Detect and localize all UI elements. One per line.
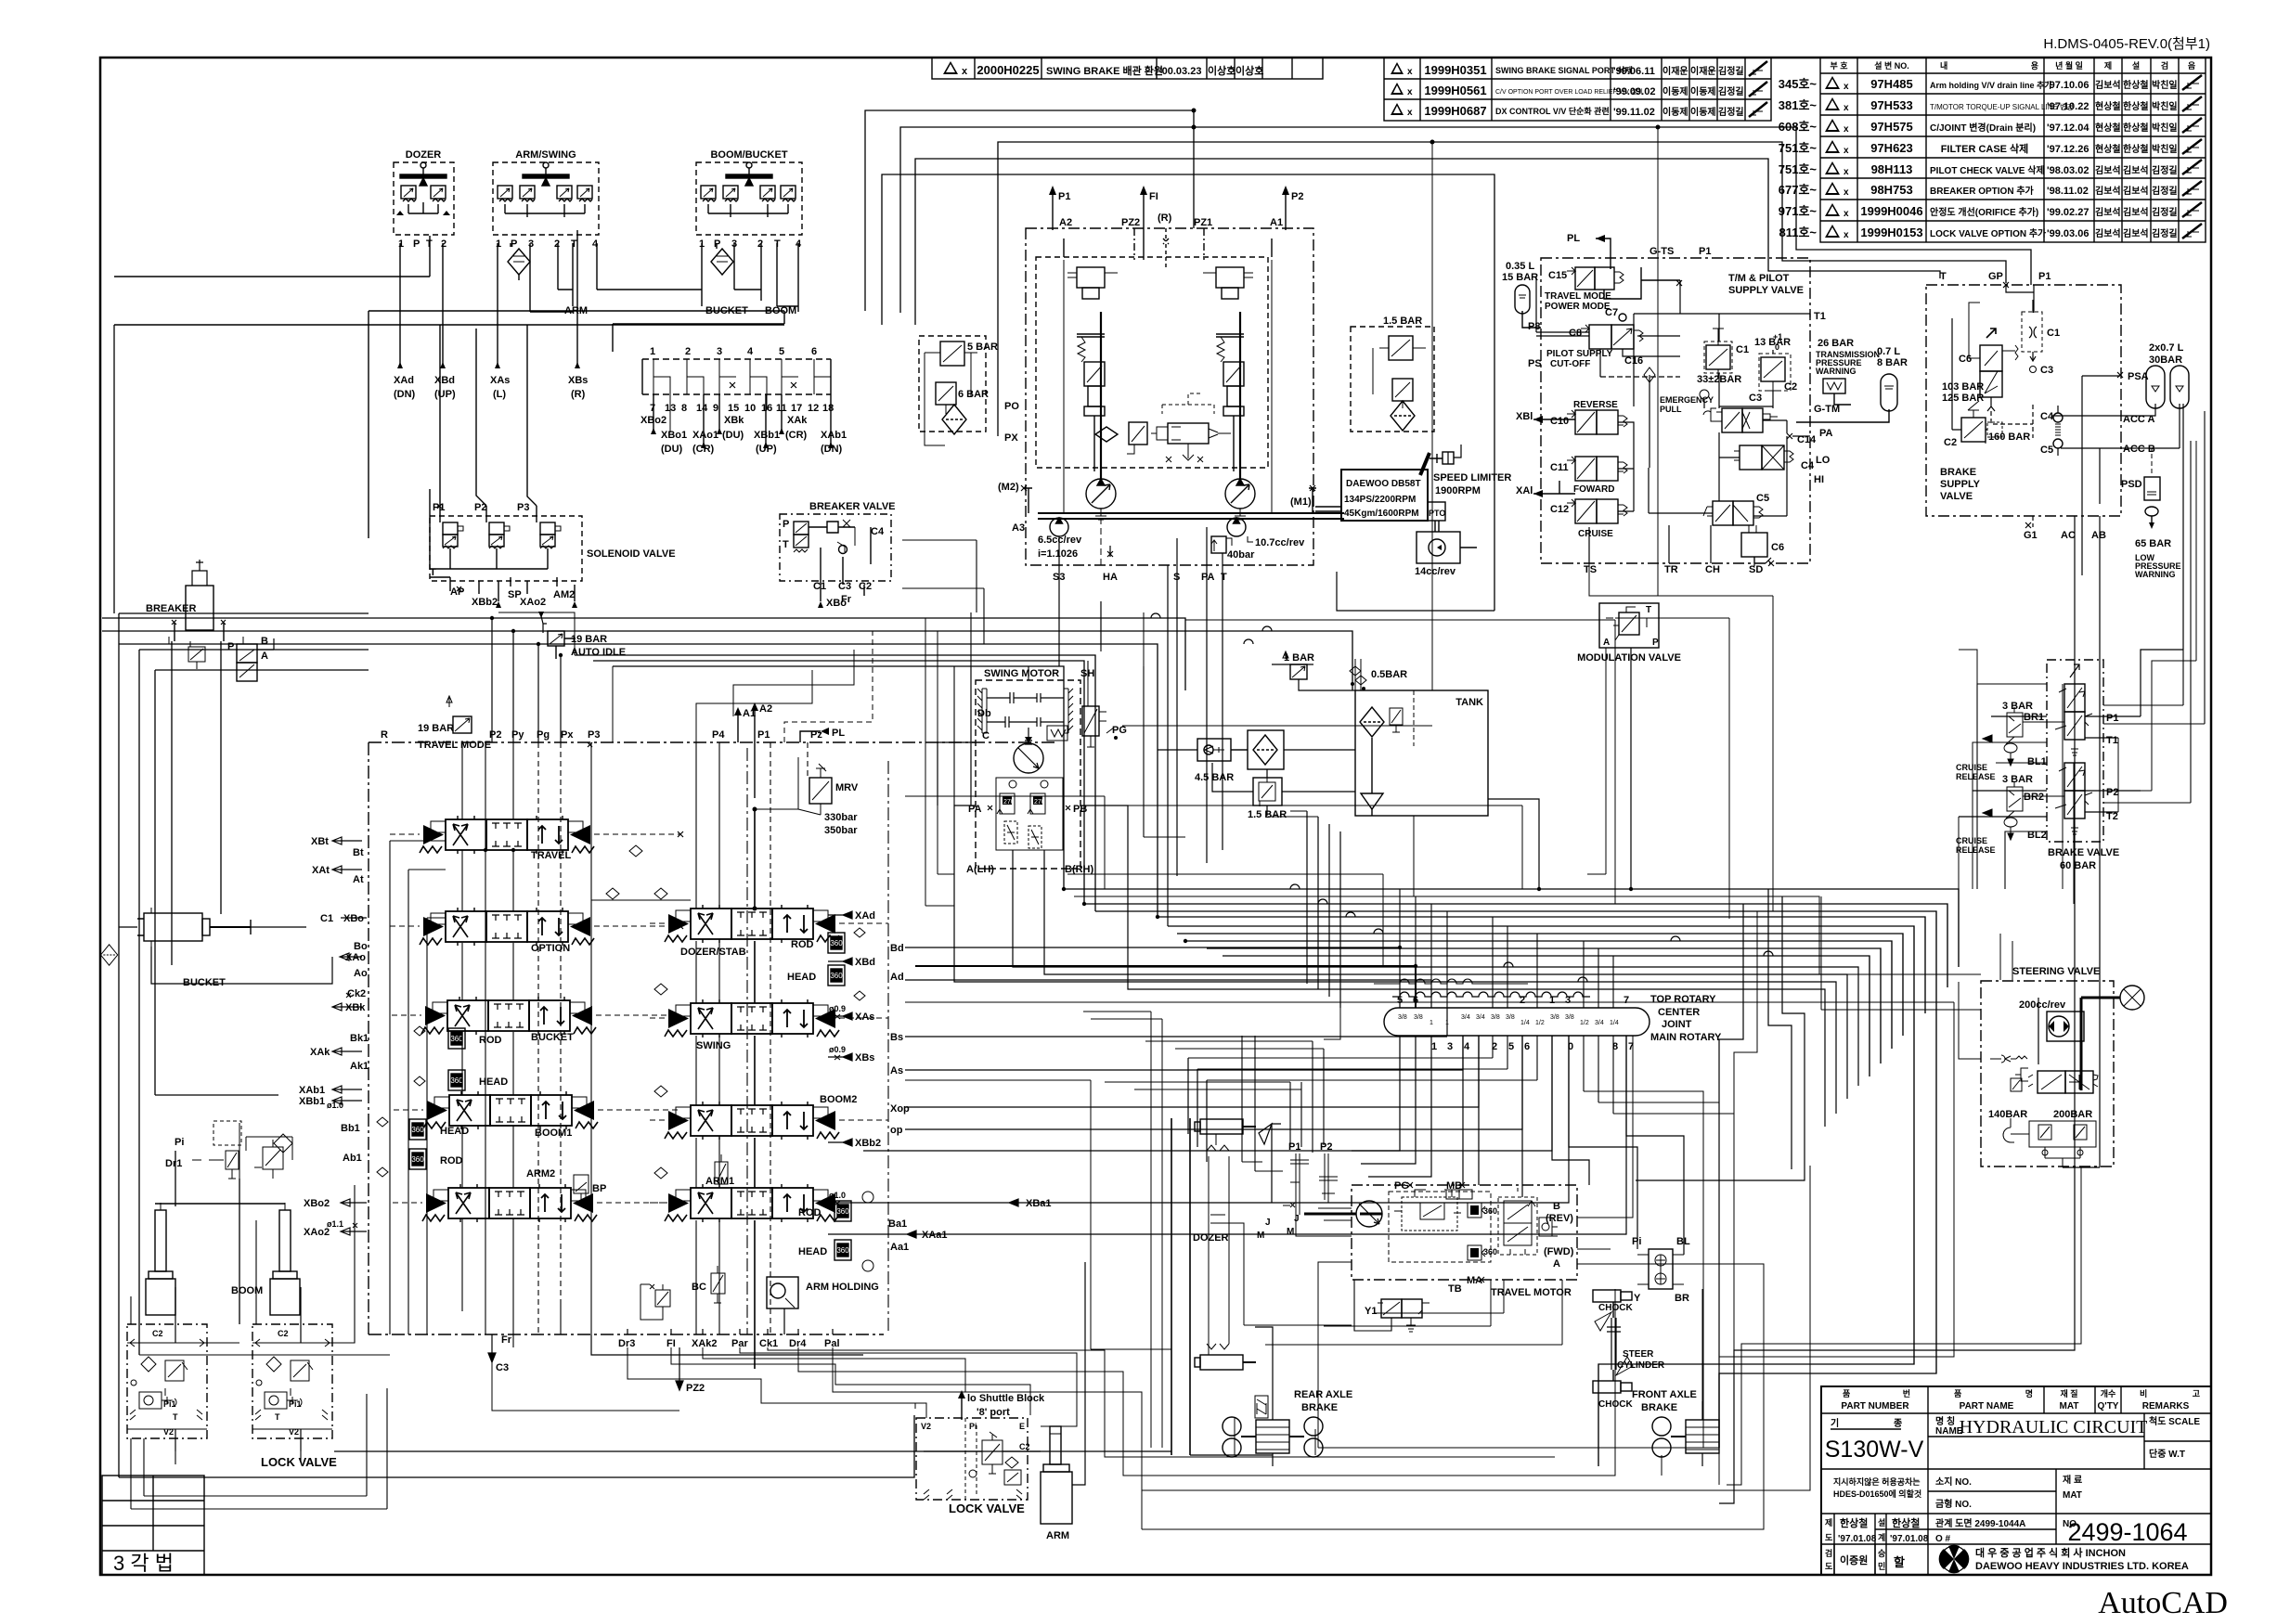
- spool: [2038, 1071, 2065, 1093]
- svg-text:140BAR: 140BAR: [1988, 1109, 2027, 1120]
- svg-text:김정길: 김정길: [2152, 206, 2178, 218]
- svg-text:17: 17: [791, 403, 802, 414]
- svg-text:C2: C2: [152, 1329, 163, 1338]
- left port labels: [299, 836, 369, 1238]
- svg-text:AM2: AM2: [553, 589, 575, 600]
- svg-text:P: P: [227, 641, 234, 652]
- inlet check: [1990, 1055, 2027, 1063]
- svg-text:XAo2: XAo2: [520, 597, 546, 608]
- 4.5 BAR check: [1190, 739, 1248, 783]
- svg-text:B: B: [261, 636, 268, 647]
- svg-text:18: 18: [822, 403, 834, 414]
- accumulator 0.7L 8BAR: [1796, 346, 1908, 422]
- svg-text:HDES-D01650에 의할것: HDES-D01650에 의할것: [1833, 1489, 1921, 1499]
- svg-text:P2: P2: [2106, 787, 2118, 798]
- svg-text:6: 6: [811, 346, 817, 357]
- svg-text:김정길: 김정길: [2152, 227, 2178, 239]
- svg-text:Bk1: Bk1: [350, 1033, 369, 1044]
- svg-text:At: At: [353, 874, 364, 885]
- svg-text:3/8: 3/8: [1565, 1014, 1574, 1021]
- svg-text:0.35 L: 0.35 L: [1506, 261, 1534, 272]
- svg-text:FILTER CASE 삭제: FILTER CASE 삭제: [1941, 142, 2029, 155]
- svg-text:3/4: 3/4: [1476, 1014, 1485, 1021]
- svg-text:PL: PL: [1567, 233, 1580, 244]
- TRAVEL spool: [420, 816, 594, 861]
- svg-text:OPTION: OPTION: [531, 943, 570, 954]
- 360 orifices: [1468, 1203, 1481, 1218]
- svg-text:재 료: 재 료: [2063, 1474, 2082, 1486]
- svg-text:6 BAR: 6 BAR: [958, 389, 989, 400]
- svg-text:이증원: 이증원: [1840, 1553, 1868, 1566]
- svg-text:P1: P1: [1699, 246, 1711, 257]
- approval rows: [1821, 1543, 2211, 1545]
- svg-text:CRUISE: CRUISE: [1578, 529, 1613, 539]
- svg-text:XAb1: XAb1: [821, 430, 847, 441]
- svg-text:P: P: [1652, 638, 1659, 648]
- svg-text:SUPPLY VALVE: SUPPLY VALVE: [1728, 285, 1804, 296]
- svg-text:3/8: 3/8: [1414, 1014, 1423, 1021]
- svg-text:명: 명: [2025, 1388, 2033, 1398]
- valve C5: [1703, 493, 1769, 525]
- svg-text:TR: TR: [1664, 564, 1678, 575]
- svg-text:척도 SCALE: 척도 SCALE: [2149, 1415, 2200, 1427]
- tank right connection: [1414, 799, 1539, 896]
- svg-text:LOCK VALVE: LOCK VALVE: [949, 1502, 1025, 1515]
- svg-text:XAk: XAk: [787, 415, 808, 426]
- middle rows: [1821, 1513, 2211, 1514]
- svg-text:TRAVEL: TRAVEL: [531, 850, 571, 861]
- svg-text:박친일: 박친일: [2152, 79, 2178, 91]
- svg-text:PS: PS: [1528, 358, 1542, 369]
- svg-text:O #: O #: [1935, 1534, 1951, 1544]
- breaker valve block: [780, 501, 896, 609]
- svg-text:PSA: PSA: [2128, 371, 2149, 382]
- svg-text:안정도 개선(ORIFICE 추가): 안정도 개선(ORIFICE 추가): [1930, 206, 2038, 218]
- check diamonds column: [606, 845, 667, 1179]
- svg-text:x: x: [1844, 146, 1849, 156]
- svg-text:XBo: XBo: [343, 913, 364, 924]
- box C6: [1741, 525, 1784, 566]
- pilot label XBs: [568, 375, 588, 400]
- svg-text:ROD: ROD: [798, 1207, 822, 1218]
- svg-text:SWING BRAKE SIGNAL PORT 삭제: SWING BRAKE SIGNAL PORT 삭제: [1495, 65, 1633, 75]
- svg-text:350bar: 350bar: [824, 825, 858, 836]
- svg-text:LOCK VALVE OPTION 추가: LOCK VALVE OPTION 추가: [1930, 227, 2047, 239]
- svg-text:360: 360: [1483, 1206, 1497, 1216]
- svg-text:이동제: 이동제: [1663, 85, 1688, 97]
- svg-text:이상호: 이상호: [1208, 64, 1236, 77]
- misc crossing bumps: [1151, 613, 1773, 982]
- svg-text:(DN): (DN): [821, 444, 843, 455]
- lock valve left1: [101, 945, 208, 1451]
- svg-text:C6: C6: [1771, 542, 1784, 553]
- svg-text:15: 15: [728, 403, 739, 414]
- svg-text:P1: P1: [2038, 271, 2051, 282]
- svg-text:3: 3: [528, 238, 534, 250]
- svg-text:op: op: [890, 1125, 903, 1136]
- svg-text:98H113: 98H113: [1871, 162, 1913, 176]
- svg-text:E: E: [1019, 1422, 1025, 1431]
- svg-text:3: 3: [1447, 1041, 1453, 1052]
- svg-text:381호~: 381호~: [1779, 98, 1818, 112]
- svg-text:0.7 L: 0.7 L: [1877, 346, 1900, 357]
- svg-text:STEERING VALVE: STEERING VALVE: [2012, 966, 2100, 977]
- svg-text:TANK: TANK: [1456, 697, 1483, 708]
- svg-text:ARM1: ARM1: [705, 1176, 734, 1187]
- filter under ARM/SWING P: [508, 249, 530, 275]
- svg-text:x: x: [962, 66, 968, 77]
- svg-text:'98.03.02: '98.03.02: [2047, 165, 2089, 176]
- gear pump 10.7cc: [1227, 518, 1305, 548]
- swing motor connections: [954, 726, 1858, 1127]
- svg-text:x: x: [1407, 67, 1413, 77]
- svg-text:'97.01.08: '97.01.08: [1838, 1534, 1877, 1544]
- svg-text:J: J: [1294, 1214, 1300, 1224]
- svg-text:RELEASE: RELEASE: [1956, 772, 1996, 781]
- svg-text:Bs: Bs: [890, 1032, 903, 1043]
- svg-text:XBs: XBs: [568, 375, 588, 386]
- svg-text:Pi1: Pi1: [163, 1399, 176, 1409]
- svg-text:751호~: 751호~: [1779, 141, 1818, 155]
- pilot dash X marks: [678, 831, 683, 929]
- spool lower: [2064, 763, 2085, 791]
- pump-to-tank drain verticals: [1059, 142, 1494, 926]
- svg-text:FOWARD: FOWARD: [1573, 484, 1614, 495]
- svg-text:97H623: 97H623: [1870, 141, 1913, 155]
- svg-text:Q'TY: Q'TY: [2098, 1401, 2119, 1411]
- svg-text:1: 1: [496, 238, 501, 250]
- valve C15 travel mode: [1545, 267, 1680, 312]
- svg-text:단중 W.T: 단중 W.T: [2149, 1448, 2185, 1460]
- svg-text:김보석: 김보석: [2123, 164, 2149, 176]
- svg-text:POWER MODE: POWER MODE: [1545, 302, 1611, 312]
- 26 BAR warning: [1816, 338, 1880, 405]
- third angle projection box: [102, 1476, 204, 1575]
- svg-text:360: 360: [1483, 1247, 1497, 1257]
- svg-text:A: A: [261, 651, 268, 662]
- pilot label XAs: [490, 375, 510, 400]
- svg-text:T1: T1: [1814, 311, 1826, 322]
- svg-text:HEAD: HEAD: [787, 972, 816, 983]
- svg-text:P1: P1: [2106, 713, 2118, 724]
- svg-text:ROD: ROD: [791, 939, 814, 950]
- svg-text:XBk: XBk: [345, 1002, 366, 1013]
- extra middle web density: [905, 127, 1954, 1357]
- pilot label XAd: [394, 375, 416, 400]
- svg-text:Ad: Ad: [890, 972, 904, 983]
- svg-text:김정길: 김정길: [2152, 164, 2178, 176]
- svg-text:BRAKE: BRAKE: [1301, 1402, 1338, 1413]
- svg-text:15 BAR: 15 BAR: [1502, 272, 1538, 283]
- svg-text:HEAD: HEAD: [440, 1126, 469, 1137]
- port P2: [1282, 186, 1303, 230]
- svg-text:LO: LO: [1816, 455, 1831, 466]
- svg-text:C8: C8: [1569, 328, 1582, 339]
- svg-text:XBt: XBt: [311, 836, 329, 847]
- Y1 valve: [1381, 1299, 1402, 1318]
- svg-text:이동제: 이동제: [1663, 106, 1688, 118]
- svg-text:할: 할: [1894, 1555, 1905, 1569]
- pilot valve ARM/SWING: [493, 149, 599, 250]
- svg-text:FI: FI: [1149, 191, 1158, 202]
- svg-text:ARM HOLDING: ARM HOLDING: [806, 1282, 879, 1293]
- svg-text:관계 도면 2499-1044A: 관계 도면 2499-1044A: [1935, 1517, 2025, 1529]
- svg-text:200cc/rev: 200cc/rev: [2019, 999, 2066, 1011]
- svg-text:SUPPLY: SUPPLY: [1940, 479, 1981, 490]
- right staircase into steering: [1636, 684, 2074, 1503]
- svg-text:1/2: 1/2: [1535, 1020, 1545, 1026]
- accumulator 15 BAR: [1502, 261, 1541, 328]
- svg-text:S130W-V: S130W-V: [1825, 1437, 1924, 1463]
- svg-text:Fr: Fr: [841, 594, 852, 605]
- svg-text:A: A: [1603, 638, 1610, 648]
- svg-text:김정길: 김정길: [1718, 106, 1744, 118]
- svg-text:LOCK VALVE: LOCK VALVE: [261, 1455, 337, 1469]
- svg-text:C12: C12: [1550, 504, 1569, 515]
- T/M supply valve box: [1528, 233, 1840, 575]
- svg-text:'99.09.02: '99.09.02: [1613, 86, 1655, 97]
- BUCKET cylinder: [119, 908, 332, 988]
- svg-text:(UP): (UP): [756, 444, 777, 455]
- svg-text:SWING MOTOR: SWING MOTOR: [984, 668, 1059, 679]
- svg-text:GP: GP: [1988, 271, 2003, 282]
- svg-text:x: x: [1407, 108, 1413, 118]
- svg-text:134PS/2200RPM: 134PS/2200RPM: [1344, 495, 1416, 505]
- svg-text:811호~: 811호~: [1779, 226, 1817, 239]
- svg-text:T1: T1: [2106, 735, 2118, 746]
- svg-text:설: 설: [1878, 1517, 1885, 1527]
- svg-text:Fr: Fr: [501, 1334, 512, 1346]
- svg-text:XAo2: XAo2: [304, 1227, 330, 1238]
- svg-text:DOZER: DOZER: [406, 149, 442, 161]
- svg-text:P2: P2: [1291, 191, 1303, 202]
- svg-text:1/2: 1/2: [1580, 1020, 1589, 1026]
- svg-text:품: 품: [1954, 1389, 1961, 1398]
- speed limiter lever: [1420, 445, 1511, 496]
- bump row above rotary: [1374, 979, 1590, 997]
- svg-text:HYDRAULIC CIRCUIT: HYDRAULIC CIRCUIT: [1960, 1417, 2148, 1437]
- svg-text:AutoCAD: AutoCAD: [2098, 1586, 2228, 1620]
- svg-text:3 BAR: 3 BAR: [2002, 701, 2033, 712]
- svg-text:비: 비: [2140, 1388, 2147, 1398]
- svg-text:x: x: [1844, 82, 1849, 92]
- svg-text:C10: C10: [1550, 416, 1569, 427]
- svg-text:BL1: BL1: [2027, 756, 2047, 767]
- svg-text:PZ1: PZ1: [1194, 217, 1212, 228]
- svg-text:T: T: [1940, 271, 1947, 282]
- svg-text:PA: PA: [1201, 572, 1215, 583]
- svg-text:T: T: [1646, 605, 1651, 615]
- svg-text:SOLENOID VALVE: SOLENOID VALVE: [587, 548, 676, 560]
- swing motor box: [966, 668, 1094, 875]
- svg-text:MAT: MAT: [2063, 1490, 2082, 1501]
- extra rotary downfeeds: [1105, 1036, 1633, 1345]
- svg-text:REMARKS: REMARKS: [2142, 1401, 2190, 1411]
- svg-text:10.7cc/rev: 10.7cc/rev: [1255, 537, 1305, 548]
- svg-text:x: x: [1407, 87, 1413, 97]
- svg-text:1999H0351: 1999H0351: [1424, 63, 1486, 77]
- svg-text:A(LH): A(LH): [966, 864, 994, 875]
- svg-text:TRAVEL MOTOR: TRAVEL MOTOR: [1491, 1287, 1572, 1298]
- svg-text:김보석: 김보석: [2095, 206, 2121, 218]
- connector output arrows & labels: [640, 394, 847, 455]
- svg-text:이재운: 이재운: [1663, 65, 1688, 77]
- svg-text:Pi: Pi: [175, 1137, 184, 1148]
- svg-text:DOZER/STAB: DOZER/STAB: [680, 947, 746, 958]
- svg-text:TOP ROTARY: TOP ROTARY: [1650, 994, 1716, 1005]
- svg-text:이동제: 이동제: [1690, 85, 1716, 97]
- svg-text:C4: C4: [2040, 411, 2054, 422]
- gear pump 6.5cc: [1038, 518, 1082, 560]
- svg-text:한상철: 한상철: [2123, 100, 2149, 112]
- svg-text:345호~: 345호~: [1779, 77, 1818, 91]
- svg-text:14cc/rev: 14cc/rev: [1415, 566, 1456, 577]
- svg-text:Bb1: Bb1: [341, 1123, 360, 1134]
- svg-text:김보석: 김보석: [2095, 79, 2121, 91]
- svg-text:(CR): (CR): [692, 444, 715, 455]
- bottom lock valve: [915, 1403, 1030, 1515]
- svg-text:설: 설: [2132, 60, 2140, 71]
- svg-text:현상철: 현상철: [2095, 100, 2121, 112]
- relief small left: [640, 1284, 670, 1320]
- svg-text:C1: C1: [813, 581, 826, 592]
- svg-text:3: 3: [717, 346, 722, 357]
- svg-text:한상철: 한상철: [2123, 79, 2149, 91]
- svg-text:(REV): (REV): [1546, 1213, 1573, 1224]
- MCV right ports to rotary: [863, 947, 1626, 1234]
- svg-text:C4: C4: [871, 526, 885, 537]
- svg-text:9: 9: [713, 403, 718, 414]
- svg-text:A3: A3: [1012, 522, 1025, 534]
- extra rotary feed verticals: [1188, 889, 1734, 1503]
- OPTION spool: [420, 908, 594, 954]
- svg-text:0: 0: [1775, 342, 1779, 352]
- svg-text:ø0.9: ø0.9: [829, 1045, 846, 1054]
- svg-text:A1: A1: [1270, 217, 1283, 228]
- svg-text:lo Shuttle Block: lo Shuttle Block: [967, 1393, 1045, 1404]
- counterbalance block right: [1498, 1197, 1537, 1255]
- modulation valve drop: [1587, 648, 1631, 889]
- svg-text:SPEED LIMITER: SPEED LIMITER: [1433, 472, 1511, 483]
- svg-text:BOOM2: BOOM2: [820, 1094, 857, 1105]
- svg-text:3 각 법: 3 각 법: [113, 1552, 174, 1575]
- pump regulator right: [1203, 267, 1253, 471]
- svg-text:XAd: XAd: [394, 375, 414, 386]
- svg-text:8: 8: [681, 403, 687, 414]
- svg-text:3/8: 3/8: [1491, 1014, 1500, 1021]
- svg-text:PO: PO: [1004, 401, 1019, 412]
- svg-text:1/4: 1/4: [1520, 1020, 1530, 1026]
- svg-text:M: M: [1287, 1227, 1294, 1237]
- svg-text:V2: V2: [921, 1422, 931, 1431]
- svg-text:677호~: 677호~: [1779, 183, 1818, 197]
- svg-text:FRONT AXLE: FRONT AXLE: [1632, 1389, 1697, 1400]
- svg-text:Bd: Bd: [890, 943, 904, 954]
- svg-text:AUTO IDLE: AUTO IDLE: [571, 647, 626, 658]
- svg-text:45Kgm/1600RPM: 45Kgm/1600RPM: [1344, 509, 1419, 519]
- svg-text:x: x: [1844, 230, 1849, 240]
- svg-text:XBb2: XBb2: [855, 1138, 881, 1149]
- svg-text:30BAR: 30BAR: [2149, 354, 2182, 366]
- svg-text:3/8: 3/8: [1550, 1014, 1559, 1021]
- svg-text:i=1.1026: i=1.1026: [1038, 548, 1078, 560]
- extra pump drains down: [902, 540, 1144, 906]
- svg-text:3/8: 3/8: [1506, 1014, 1515, 1021]
- right port labels: [828, 910, 1052, 1253]
- svg-text:XBo1: XBo1: [661, 430, 687, 441]
- svg-text:(DU): (DU): [722, 430, 744, 441]
- svg-text:민: 민: [1878, 1561, 1885, 1571]
- svg-text:G-TS: G-TS: [1650, 246, 1674, 257]
- svg-text:SWING BRAKE 배관 환원: SWING BRAKE 배관 환원: [1046, 64, 1163, 77]
- svg-text:현상철: 현상철: [2095, 143, 2121, 155]
- 19 BAR travel mode valve: [418, 696, 491, 751]
- svg-text:BRAKE VALVE: BRAKE VALVE: [2048, 847, 2119, 858]
- svg-text:'8' port: '8' port: [977, 1407, 1010, 1418]
- svg-text:'98.11.02: '98.11.02: [2047, 186, 2089, 197]
- SH valve right of swing motor: [1047, 680, 1127, 747]
- svg-text:3/4: 3/4: [1461, 1014, 1470, 1021]
- svg-text:한상철: 한상철: [1892, 1516, 1920, 1529]
- extra MCV bottom collectors: [139, 1095, 863, 1355]
- accumulators ACC: [2051, 342, 2189, 575]
- MRV relief: [755, 757, 859, 836]
- svg-text:Ab1: Ab1: [343, 1153, 362, 1164]
- svg-text:TRAVEL MODE: TRAVEL MODE: [418, 740, 491, 751]
- svg-text:Ao: Ao: [354, 968, 368, 979]
- svg-text:Arm holding V/V drain line 추가: Arm holding V/V drain line 추가: [1930, 80, 2052, 90]
- right side long verticals: [1719, 404, 2196, 1503]
- swing motor to bus: [938, 661, 1088, 806]
- svg-text:CHOCK: CHOCK: [1598, 1303, 1633, 1313]
- emergency pull valve C3: [1660, 390, 1778, 432]
- svg-text:1999H0153: 1999H0153: [1860, 226, 1922, 239]
- svg-text:BOOM1: BOOM1: [535, 1128, 572, 1139]
- svg-text:CHOCK: CHOCK: [1598, 1399, 1633, 1410]
- pump 14cc: [1415, 521, 1477, 577]
- svg-text:대 우 중 공 업 주 식 회 사 INCHON: 대 우 중 공 업 주 식 회 사 INCHON: [1975, 1546, 2126, 1559]
- svg-text:XBd: XBd: [855, 957, 875, 968]
- svg-text:MAT: MAT: [2060, 1401, 2079, 1411]
- svg-text:330bar: 330bar: [824, 812, 858, 823]
- svg-text:DAEWOO HEAVY INDUSTRIES LTD.: DAEWOO HEAVY INDUSTRIES LTD. KOREA: [1975, 1561, 2189, 1572]
- svg-text:(R): (R): [1158, 213, 1172, 224]
- svg-text:2: 2: [757, 238, 763, 250]
- svg-text:BP: BP: [592, 1183, 606, 1194]
- svg-text:XBo2: XBo2: [640, 415, 666, 426]
- svg-text:한상철: 한상철: [2123, 122, 2149, 134]
- svg-text:ARM/SWING: ARM/SWING: [515, 149, 576, 161]
- BC valve: [692, 1266, 725, 1303]
- drive shaft: [1021, 260, 1344, 519]
- svg-text:Ba1: Ba1: [888, 1218, 907, 1230]
- svg-text:5: 5: [1508, 1041, 1514, 1052]
- svg-text:ø1.0: ø1.0: [829, 1191, 846, 1200]
- svg-text:검: 검: [2161, 60, 2168, 71]
- svg-text:P: P: [511, 238, 517, 250]
- revision table A (1 row): [932, 58, 1323, 79]
- svg-text:P1: P1: [1058, 191, 1070, 202]
- svg-text:(CR): (CR): [785, 430, 808, 441]
- svg-text:T: T: [430, 567, 436, 578]
- svg-text:DX CONTROL V/V 단순화 관련: DX CONTROL V/V 단순화 관련: [1495, 106, 1610, 116]
- svg-text:5 BAR: 5 BAR: [967, 342, 998, 353]
- svg-text:VALVE: VALVE: [1940, 491, 1973, 502]
- svg-text:XBb2: XBb2: [472, 597, 498, 608]
- svg-text:박친일: 박친일: [2152, 100, 2178, 112]
- svg-text:계: 계: [1878, 1532, 1885, 1542]
- svg-text:A: A: [1553, 1258, 1560, 1270]
